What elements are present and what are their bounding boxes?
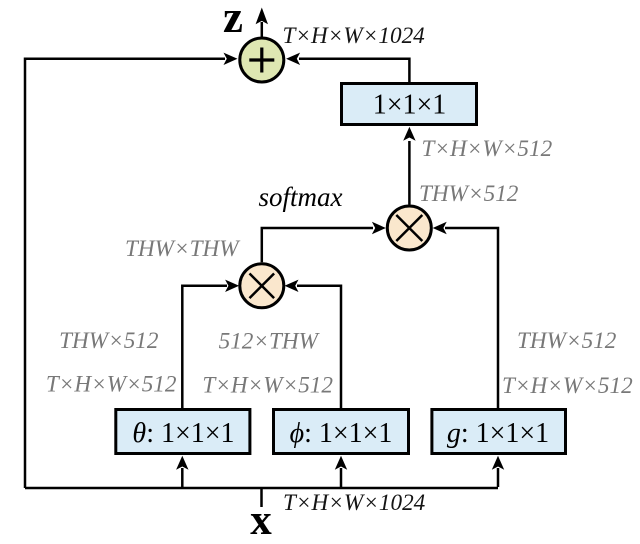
wire phi input arrow [335, 456, 347, 487]
svg-text:T×H×W×512: T×H×W×512 [502, 373, 633, 399]
wire theta input arrow [176, 456, 188, 487]
wire bottom input bus [25, 487, 498, 490]
svg-text:T×H×W×1024: T×H×W×1024 [283, 490, 426, 516]
svg-text:T×H×W×512: T×H×W×512 [202, 373, 333, 399]
wire right multiply output into output conv box [403, 127, 415, 205]
wire g input arrow [492, 456, 504, 487]
wire theta riser into left multiply [182, 280, 239, 408]
svg-text:z: z [223, 0, 243, 42]
conv box phi 1x1x1 [274, 410, 409, 454]
svg-text:THW×512: THW×512 [517, 328, 617, 354]
conv box theta 1x1x1 [116, 410, 250, 454]
node adder circle with plus [240, 38, 284, 82]
conv box output 1x1x1 [342, 84, 477, 125]
node multiply left (matmul circle) [240, 264, 284, 308]
svg-text:THW×512: THW×512 [59, 328, 159, 354]
svg-text:T×H×W×1024: T×H×W×1024 [283, 23, 426, 49]
conv box g 1x1x1 [432, 410, 566, 454]
svg-text:softmax: softmax [259, 182, 343, 212]
svg-text:θ: 1×1×1: θ: 1×1×1 [132, 418, 234, 449]
svg-text:512×THW: 512×THW [219, 329, 321, 355]
wire left multiply output into right multiply [262, 222, 386, 262]
wire output conv box into adder [286, 53, 409, 83]
svg-text:THW×THW: THW×THW [125, 236, 241, 262]
node multiply right (matmul circle) [387, 206, 431, 250]
wire phi riser into left multiply [285, 280, 342, 408]
svg-text:g: 1×1×1: g: 1×1×1 [447, 418, 549, 449]
svg-text:x: x [250, 497, 272, 544]
svg-text:ϕ: 1×1×1: ϕ: 1×1×1 [290, 418, 393, 449]
wire g riser into right multiply [433, 222, 498, 408]
svg-text:1×1×1: 1×1×1 [373, 90, 447, 121]
wire stub to input x label [260, 488, 263, 507]
wire residual skip connection (left vertical + top horizontal into adder) [25, 53, 238, 488]
wire adder output z arrow [256, 8, 268, 38]
svg-text:T×H×W×512: T×H×W×512 [422, 136, 553, 162]
svg-text:T×H×W×512: T×H×W×512 [46, 372, 177, 398]
svg-text:THW×512: THW×512 [419, 181, 519, 207]
